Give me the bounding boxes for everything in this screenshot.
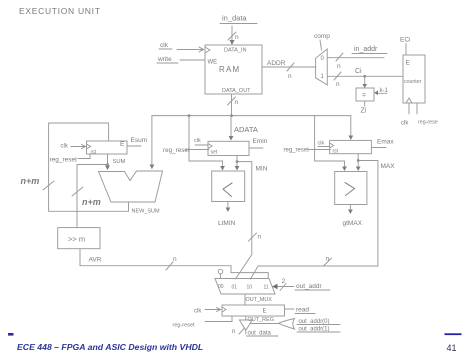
svg-text:n+m: n+m xyxy=(21,176,40,186)
out_addr label xyxy=(296,283,322,290)
net MIN wires xyxy=(236,156,252,280)
svg-text:DATA_OUT: DATA_OUT xyxy=(222,88,251,94)
wire counter clk xyxy=(408,103,410,114)
svg-text:rst: rst xyxy=(333,149,339,155)
svg-text:ADDR: ADDR xyxy=(267,60,286,67)
counter clock triangle xyxy=(406,98,412,103)
wire reg_reset to set xyxy=(185,149,209,151)
svg-text:>> m: >> m xyxy=(68,235,85,244)
wire clk (MAX reg) xyxy=(318,146,330,148)
MAX register clock triangle xyxy=(330,143,334,148)
junction ADATA to lt-comparator xyxy=(188,114,191,117)
MAX label xyxy=(381,163,396,170)
svg-text:n: n xyxy=(326,256,330,263)
svg-text:RAM: RAM xyxy=(219,65,240,74)
net comp xyxy=(314,33,330,40)
slash n+m on shifter input xyxy=(72,187,83,196)
svg-text:n: n xyxy=(173,256,177,263)
feedback loop wire xyxy=(49,123,129,211)
wire comp to mux select xyxy=(320,40,322,50)
svg-text:E: E xyxy=(120,141,125,148)
select slash xyxy=(280,284,286,291)
out_data underline xyxy=(247,335,279,337)
wire tri-state enable xyxy=(250,323,278,325)
wire ECi to counter xyxy=(405,44,407,56)
net clk (RAM) xyxy=(160,42,169,49)
net AVR wire shifter to out mux xyxy=(80,249,268,279)
net ADDR wire RAM to mux xyxy=(262,66,316,68)
net in_data underline xyxy=(220,23,257,25)
net reg_reset (MAX reg) xyxy=(284,148,310,154)
gt comparator xyxy=(335,172,367,205)
ADDR label xyxy=(267,60,286,67)
out mux xyxy=(215,279,275,295)
wire clk arrow to RAM xyxy=(177,49,203,51)
slash DATA_OUT xyxy=(228,97,236,105)
svg-text:n: n xyxy=(235,99,239,106)
MAX width n xyxy=(326,256,330,263)
net write xyxy=(157,56,172,63)
RAM block xyxy=(205,45,262,94)
svg-text:Emax: Emax xyxy=(377,139,394,146)
svg-text:reg_reset: reg_reset xyxy=(50,157,78,164)
svg-text:0: 0 xyxy=(321,56,325,62)
SUM register rst label xyxy=(91,150,97,156)
wire Emin xyxy=(249,147,263,149)
MAX register xyxy=(330,140,372,153)
svg-text:DATA_IN: DATA_IN xyxy=(224,48,246,54)
wire in_data to RAM xyxy=(231,26,233,43)
wire counter reg-reset xyxy=(416,103,418,114)
ADDR width n xyxy=(288,73,292,80)
svg-text:WE: WE xyxy=(208,60,218,66)
OUT_REG register xyxy=(222,305,285,316)
svg-text:n: n xyxy=(337,63,341,70)
net gtMAX xyxy=(349,205,351,211)
svg-text:n: n xyxy=(288,73,292,80)
or gate xyxy=(278,319,294,330)
svg-text:write: write xyxy=(157,56,172,63)
svg-text:clk: clk xyxy=(61,144,69,150)
svg-text:E: E xyxy=(406,60,411,67)
net clk (OUT_REG) xyxy=(194,309,202,315)
AVR width n xyxy=(173,256,177,263)
width label n+m (shifter input) xyxy=(82,197,101,207)
svg-text:11: 11 xyxy=(264,285,269,291)
wire Emax xyxy=(371,147,386,149)
junction MAX xyxy=(357,159,360,162)
svg-text:n: n xyxy=(235,34,239,41)
wire MAX to gt comparator right input xyxy=(357,161,359,168)
svg-text:41: 41 xyxy=(447,343,457,353)
wire OUT_REG to tri-state xyxy=(245,316,247,320)
OUT_REG E label xyxy=(263,309,267,315)
net reg-reset (OUT_REG) xyxy=(173,323,195,329)
net Emax xyxy=(377,139,394,146)
net out_addr select xyxy=(275,286,294,288)
wire Ci down to equality comparator xyxy=(364,76,366,85)
out_addr(0) underline xyxy=(297,324,340,326)
bus slash in_data xyxy=(228,32,236,40)
svg-text:n: n xyxy=(232,329,235,335)
svg-text:LtMIN: LtMIN xyxy=(218,220,236,227)
wire Esum xyxy=(127,145,141,147)
constant 0 loop at mux input 00 xyxy=(218,269,223,274)
out_addr underline xyxy=(295,289,330,291)
MIN slash xyxy=(249,233,257,241)
wire write to WE xyxy=(180,59,205,61)
adder xyxy=(99,171,163,202)
clk underline xyxy=(159,48,172,50)
net Emin xyxy=(253,138,268,145)
lt comparator xyxy=(212,171,245,202)
wire RAM DATA_OUT down to ADATA and MIN reg xyxy=(231,94,233,116)
svg-text:in_addr: in_addr xyxy=(354,46,378,53)
wire MIN to lt comparator right input xyxy=(236,162,238,167)
slide title EXECUTION UNIT xyxy=(19,6,101,16)
wire ADATA into MIN register xyxy=(230,116,232,139)
SUM register E label xyxy=(120,141,125,148)
Ci label xyxy=(355,68,362,75)
shifter block xyxy=(58,228,100,249)
wire ADATA right end into MAX register xyxy=(350,116,352,138)
net in_addr label xyxy=(354,46,378,53)
MAX slash xyxy=(324,258,332,266)
svg-text:clk: clk xyxy=(318,141,325,147)
Ci slash xyxy=(334,72,341,80)
select width 2 xyxy=(282,278,286,285)
svg-text:ECE 448 – FPGA and ASIC Design: ECE 448 – FPGA and ASIC Design with VHDL xyxy=(17,342,203,352)
svg-text:clk: clk xyxy=(194,309,202,315)
svg-text:clk: clk xyxy=(401,121,409,127)
in_addr underline xyxy=(352,53,387,55)
svg-text:clk: clk xyxy=(194,138,201,144)
svg-text:Ci: Ci xyxy=(355,68,362,75)
svg-text:in_data: in_data xyxy=(222,14,247,23)
wire reg_reset to rst xyxy=(78,154,90,159)
ADDR slash xyxy=(287,63,294,71)
wire SUM branch to shifter xyxy=(77,165,108,228)
svg-text:set: set xyxy=(211,150,218,156)
net Zi xyxy=(364,101,366,106)
svg-text:gtMAX: gtMAX xyxy=(343,220,363,227)
wire feedback into SUM register D xyxy=(108,123,110,141)
net reg_reset (MIN reg) xyxy=(163,147,190,154)
out_data slash xyxy=(239,328,245,334)
svg-text:SUM: SUM xyxy=(113,159,126,165)
svg-text:NEW_SUM: NEW_SUM xyxy=(132,209,161,215)
net out_addr(1) xyxy=(299,327,330,333)
SUM register clock triangle xyxy=(87,144,91,149)
net read xyxy=(296,307,309,314)
mux input 0 label xyxy=(321,56,325,62)
Ci width n xyxy=(336,81,340,88)
wire clk (MIN reg) xyxy=(195,144,208,146)
svg-text:n: n xyxy=(336,81,340,88)
svg-text:out_addr: out_addr xyxy=(296,283,322,290)
MIN width n xyxy=(258,234,262,241)
out_addr(1) underline xyxy=(297,331,340,333)
svg-text:OUT_MUX: OUT_MUX xyxy=(246,297,273,303)
footer blue dash left xyxy=(8,333,14,336)
svg-text:reg_reset: reg_reset xyxy=(163,147,190,154)
RAM clock triangle xyxy=(205,47,210,53)
svg-text:MIN: MIN xyxy=(256,166,268,173)
net clk (MAX reg) xyxy=(318,141,325,147)
counter block xyxy=(403,55,425,103)
svg-text:2: 2 xyxy=(282,278,286,285)
SUM register xyxy=(87,141,128,154)
svg-text:10: 10 xyxy=(247,285,253,291)
wire reg-reset (OUT_REG) xyxy=(205,316,232,322)
svg-text:read: read xyxy=(296,307,309,314)
junction MIN xyxy=(236,160,239,163)
MIN register set label xyxy=(211,150,218,156)
arrow into DATA_IN xyxy=(230,40,235,45)
slash in_addr xyxy=(336,53,343,61)
svg-text:comp: comp xyxy=(314,33,330,40)
net MAX wires xyxy=(251,154,378,279)
net Ci wire mux input 1 to counter xyxy=(327,75,403,77)
wire read to E xyxy=(285,308,295,310)
svg-text:clk: clk xyxy=(160,42,169,49)
net clk (SUM reg) xyxy=(61,144,69,150)
counter clk label xyxy=(401,121,409,127)
wire clk arrow xyxy=(71,146,85,148)
MAX register rst label xyxy=(333,149,339,155)
svg-text:reg-rese: reg-rese xyxy=(418,120,438,126)
wire clk arrow (OUT_REG) xyxy=(205,309,220,311)
MIN label xyxy=(256,166,268,173)
wire reg_reset (MAX reg) xyxy=(308,149,331,151)
mux input 1 label xyxy=(321,74,325,80)
svg-text:reg-reset: reg-reset xyxy=(173,323,195,329)
svg-text:00: 00 xyxy=(218,284,224,290)
svg-text:=: = xyxy=(362,93,366,100)
net clk (MIN reg) xyxy=(194,138,201,144)
svg-text:n: n xyxy=(258,234,262,241)
OUT_REG clock triangle xyxy=(222,307,226,312)
AVR label xyxy=(89,257,102,264)
read underline xyxy=(295,313,315,315)
AVR slash xyxy=(166,262,173,270)
mux addr-select xyxy=(316,49,328,85)
write underline xyxy=(157,62,178,64)
wire ADATA left end to adder right input xyxy=(151,116,153,167)
net in_data label xyxy=(222,14,247,23)
ADATA label xyxy=(234,125,258,134)
tri-state buffer xyxy=(239,320,252,330)
SUM label xyxy=(113,159,126,165)
net Esum xyxy=(131,137,148,144)
bus width n xyxy=(235,34,239,41)
net LtMIN xyxy=(227,202,229,210)
out mux input labels 00 01 10 11 xyxy=(218,284,269,291)
svg-text:1: 1 xyxy=(321,74,325,80)
svg-text:ADATA: ADATA xyxy=(234,125,258,134)
net NEW_SUM label xyxy=(132,209,161,215)
svg-text:rst: rst xyxy=(91,150,97,156)
counter reg-rese label xyxy=(418,120,438,126)
svg-text:counter: counter xyxy=(404,79,422,85)
svg-text:Esum: Esum xyxy=(131,137,148,144)
equality comparator xyxy=(356,88,374,101)
OUT_REG label xyxy=(248,317,275,323)
width label n+m (feedback) xyxy=(21,176,40,186)
svg-text:AVR: AVR xyxy=(89,257,102,264)
wire k-1 arrow into comparator xyxy=(376,92,387,94)
net reg_reset (SUM reg) xyxy=(50,157,78,164)
net OUT_MUX xyxy=(244,294,246,305)
out_data width n xyxy=(232,329,235,335)
width n xyxy=(235,99,239,106)
svg-text:MAX: MAX xyxy=(381,163,396,170)
svg-text:Zi: Zi xyxy=(361,108,367,115)
svg-text:01: 01 xyxy=(232,285,238,291)
net out_addr(0) xyxy=(299,319,330,325)
wire in_addr to mux input 0 xyxy=(327,57,384,59)
wire ADATA to gt-comparator left input xyxy=(315,116,345,168)
svg-text:ECi: ECi xyxy=(400,37,410,44)
slash n+m on feedback xyxy=(43,181,54,190)
MIN register clock triangle xyxy=(208,144,212,149)
junction Ci to comparator xyxy=(363,75,366,78)
footer blue line right xyxy=(445,333,462,335)
svg-text:n+m: n+m xyxy=(82,197,101,207)
junction SUM branch xyxy=(106,163,109,166)
junction ADATA/DATA_OUT xyxy=(230,114,233,117)
svg-text:E: E xyxy=(263,309,267,315)
MIN register xyxy=(208,141,249,155)
net SUM wire register to adder xyxy=(107,154,109,167)
net ADATA bus xyxy=(152,115,351,117)
shifter label >> m xyxy=(68,235,85,244)
net out_data xyxy=(245,330,247,334)
net k-1 xyxy=(380,88,389,94)
wire ADATA to lt-comparator left input xyxy=(189,116,223,167)
width n xyxy=(337,63,341,70)
net ECi xyxy=(400,37,410,44)
svg-text:reg_reset: reg_reset xyxy=(284,148,310,154)
svg-text:Emin: Emin xyxy=(253,138,268,145)
svg-text:EXECUTION UNIT: EXECUTION UNIT xyxy=(19,6,101,16)
